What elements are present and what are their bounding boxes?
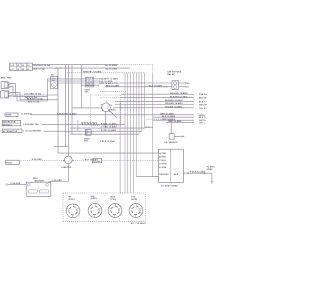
wire M1 out2 xyxy=(94,80,99,82)
svg-text:B RED 16 AWG: B RED 16 AWG xyxy=(101,122,117,125)
svg-text:BLK 18 AWG: BLK 18 AWG xyxy=(162,115,176,118)
wire vertical x81.6 xyxy=(81,65,83,108)
P1 stub1 xyxy=(179,82,186,84)
svg-text:RED/WH 18 AWG: RED/WH 18 AWG xyxy=(165,99,183,102)
wire to relay P1 pin1 xyxy=(58,82,172,84)
connector plug 4 xyxy=(129,204,143,218)
alternator box R3 xyxy=(2,129,22,132)
R3 wire xyxy=(44,130,142,132)
ignition switch enclosure (dashed) xyxy=(91,95,121,126)
svg-text:25: 25 xyxy=(22,69,24,71)
svg-text:PNK A: PNK A xyxy=(199,93,206,96)
wire M1 row4 xyxy=(82,84,99,86)
svg-text:ORG D: ORG D xyxy=(199,105,207,107)
wire T1 row1 xyxy=(48,78,86,80)
svg-text:BLK/WH 16 GA: BLK/WH 16 GA xyxy=(27,97,43,100)
svg-text:(GRN): (GRN) xyxy=(131,199,138,201)
svg-text:YEL/WH 18 AWG: YEL/WH 18 AWG xyxy=(165,106,183,109)
connector plug 2 xyxy=(88,204,102,218)
pin end marks xyxy=(205,94,208,108)
svg-text:MAG: MAG xyxy=(111,108,116,111)
fuse block FB1 xyxy=(10,63,33,71)
svg-text:D ORG: D ORG xyxy=(159,163,166,165)
splice X marks on W2 xyxy=(56,67,61,68)
svg-text:FUSE: FUSE xyxy=(6,162,12,164)
svg-text:GRN/YEL 18 AWG: GRN/YEL 18 AWG xyxy=(83,70,102,73)
bus drop x136.2 xyxy=(135,73,137,177)
wire bus3 dashed xyxy=(65,72,144,74)
wire into RB y176.6 xyxy=(136,176,158,178)
svg-text:GROUND: GROUND xyxy=(159,174,169,176)
fuse box F2 xyxy=(6,160,20,164)
svg-text:ALTERNATOR: ALTERNATOR xyxy=(3,130,18,133)
R2 wire xyxy=(41,124,125,126)
svg-text:INTERLOCK: INTERLOCK xyxy=(3,122,16,124)
wire from C2 pin2 xyxy=(10,96,47,101)
svg-text:RED B: RED B xyxy=(199,98,206,100)
svg-text:B+ 16 AWG: B+ 16 AWG xyxy=(106,64,118,67)
wire jog y146.6 xyxy=(55,146,69,148)
row y117 xyxy=(153,116,194,118)
breakout row5 xyxy=(113,107,194,109)
oil sensor SB xyxy=(169,134,174,139)
ignition switch M2 xyxy=(101,101,117,118)
row y122.3 xyxy=(166,121,194,123)
svg-text:(BLK): (BLK) xyxy=(69,199,75,201)
svg-text:LOC GRN 16 GA: LOC GRN 16 GA xyxy=(24,93,42,96)
bus drop x141.8 xyxy=(141,73,143,131)
connector C1 xyxy=(1,82,10,89)
sensor arrow xyxy=(174,135,182,137)
svg-text:16 GA BLK: 16 GA BLK xyxy=(21,113,33,116)
svg-text:L+F: L+F xyxy=(10,65,15,67)
breakout row1 xyxy=(121,93,194,95)
dashed to label xyxy=(73,160,83,162)
solenoid terminals xyxy=(63,160,74,161)
svg-text:6 GA RED: 6 GA RED xyxy=(52,179,63,182)
interlock box R1 xyxy=(5,113,18,116)
sensor feed vertical xyxy=(170,119,172,134)
svg-text:STARTER: STARTER xyxy=(61,166,72,169)
battery B1 xyxy=(26,182,51,196)
M2 bottom wire xyxy=(104,112,106,128)
svg-text:SW: SW xyxy=(84,141,87,143)
splice cluster row xyxy=(145,126,153,128)
svg-text:ORG 18 AWG: ORG 18 AWG xyxy=(168,120,182,123)
wire bus1 xyxy=(32,64,118,66)
svg-text:A PNK: A PNK xyxy=(159,152,166,155)
svg-text:P BLK 16 AWG: P BLK 16 AWG xyxy=(190,171,206,174)
svg-text:OIL SENSOR: OIL SENSOR xyxy=(164,142,178,144)
svg-text:NO. 725-04567: NO. 725-04567 xyxy=(131,222,146,225)
wire to relay P1 pin2 xyxy=(105,86,172,88)
svg-text:RED 16 GA: RED 16 GA xyxy=(28,101,40,104)
relay module M1 xyxy=(86,77,94,87)
RB ground wire xyxy=(184,173,212,181)
splice X marks xyxy=(163,86,167,87)
svg-text:AMP. FMO: AMP. FMO xyxy=(1,77,12,80)
ground symbol xyxy=(210,182,213,184)
breakout row2 xyxy=(121,97,194,99)
svg-text:TO BODY GRND: TO BODY GRND xyxy=(161,186,178,188)
module box RB xyxy=(159,149,184,182)
svg-text:(RED): (RED) xyxy=(91,198,97,200)
svg-text:E GRN: E GRN xyxy=(159,167,166,169)
svg-text:C BLK: C BLK xyxy=(159,160,166,162)
breakout row4 xyxy=(115,104,194,106)
svg-text:S: S xyxy=(187,87,189,89)
seat switch M3 xyxy=(85,130,91,136)
bus drop x130.6 xyxy=(130,73,132,193)
M2 left wire xyxy=(72,107,102,109)
bus drop x125 xyxy=(124,73,126,193)
svg-text:1: 1 xyxy=(85,124,86,126)
bus drop x127.8 xyxy=(127,73,129,193)
svg-text:30: 30 xyxy=(27,65,29,67)
staircase row y134 xyxy=(70,133,139,135)
svg-text:SAFE: SAFE xyxy=(6,114,12,117)
ignition switch dashed wire2 xyxy=(101,97,121,99)
R1 wire long xyxy=(31,114,194,116)
wire M1 out1 xyxy=(94,78,99,80)
harness connector box (dashed) xyxy=(63,193,146,221)
wire T1 row2 xyxy=(48,80,86,82)
wire from C1 pin1 xyxy=(10,84,58,95)
battery ground cable xyxy=(8,184,26,186)
staircase row y128 xyxy=(70,127,144,129)
svg-text:B RED: B RED xyxy=(159,156,166,158)
svg-text:4 GA BLK: 4 GA BLK xyxy=(10,182,21,185)
connector C2 xyxy=(1,91,11,98)
wire V2 drop x58 xyxy=(57,68,59,153)
terminal strip TS1 xyxy=(81,122,96,125)
solenoid feed vertical xyxy=(67,65,69,157)
connector plug 1 xyxy=(66,204,80,218)
long wire to module y153.1 xyxy=(58,152,159,154)
dashed wire y91.3 xyxy=(100,90,127,92)
bus drop x139 xyxy=(138,73,140,134)
svg-text:YEL E: YEL E xyxy=(199,108,206,110)
svg-text:SOL: SOL xyxy=(85,92,90,94)
svg-text:BLK/WH 18 AWG: BLK/WH 18 AWG xyxy=(170,95,188,98)
P1 stub2 xyxy=(179,86,186,88)
wire from C1 pin2 xyxy=(10,87,48,97)
drop to connector x120.1 xyxy=(119,101,121,193)
svg-text:L BLK/WH 18A: L BLK/WH 18A xyxy=(23,123,39,126)
svg-text:RELAY: RELAY xyxy=(167,73,175,76)
splice X marks xyxy=(113,82,117,83)
svg-text:10: 10 xyxy=(17,65,19,67)
row y120 xyxy=(153,119,194,121)
wire V3 x47.5 xyxy=(47,79,49,101)
wire V1 drop x65.3 xyxy=(64,65,66,147)
wire V2b drop x72 xyxy=(71,65,73,135)
interlock module R2 xyxy=(2,120,21,126)
svg-text:L 20 GA RED/WH: L 20 GA RED/WH xyxy=(23,130,41,133)
svg-text:4 GA RED: 4 GA RED xyxy=(32,158,43,161)
dashed to module xyxy=(102,160,159,162)
svg-text:2: 2 xyxy=(91,124,92,126)
svg-text:15: 15 xyxy=(17,69,19,71)
starter cable xyxy=(49,164,68,184)
svg-text:GRND: GRND xyxy=(207,169,214,171)
svg-text:20: 20 xyxy=(22,65,24,67)
bus drop x152.8 xyxy=(152,65,154,73)
starter solenoid S1 xyxy=(65,156,73,164)
wire W2 fuse row2 xyxy=(32,67,130,69)
svg-text:N BLK/WH 16 AWG: N BLK/WH 16 AWG xyxy=(57,112,77,115)
breakout row3 xyxy=(115,100,194,102)
wire from C2 pin1 xyxy=(10,93,58,100)
connector plug 3 xyxy=(108,204,122,218)
dashed row to sensor xyxy=(147,118,172,120)
wire to M3 xyxy=(77,120,79,131)
svg-text:D YEL 16 AWG: D YEL 16 AWG xyxy=(101,129,117,132)
svg-text:ORG/WH 18 AWG: ORG/WH 18 AWG xyxy=(165,102,183,105)
svg-text:BLU G: BLU G xyxy=(199,117,206,119)
headlight relay P1 xyxy=(172,81,179,90)
svg-text:J BLK 16 AWG: J BLK 16 AWG xyxy=(100,140,116,143)
svg-text:GRY J: GRY J xyxy=(199,122,205,124)
inline label box LB1 xyxy=(92,159,101,163)
svg-text:(YEL): (YEL) xyxy=(111,199,117,201)
svg-text:MODULE: MODULE xyxy=(3,124,13,126)
svg-text:BLK: BLK xyxy=(174,174,179,176)
bus drop x133.4 xyxy=(132,73,134,193)
dashed battery cable xyxy=(19,160,63,162)
PTO switch T1 xyxy=(51,76,58,89)
svg-text:BLK C: BLK C xyxy=(199,101,206,103)
bus drop x144.6 xyxy=(144,73,146,128)
svg-text:B+: B+ xyxy=(187,83,191,85)
svg-text:725-04: 725-04 xyxy=(93,160,101,163)
svg-text:35: 35 xyxy=(27,69,29,71)
svg-text:GRN/WH 18 AWG: GRN/WH 18 AWG xyxy=(170,92,188,95)
